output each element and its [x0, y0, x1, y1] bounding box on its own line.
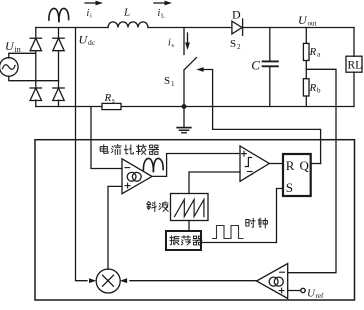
svg-text:U: U — [5, 39, 15, 53]
diode S2 — [232, 21, 242, 34]
label 时钟 — [246, 218, 255, 227]
Q output wire — [311, 163, 321, 165]
svg-text:1: 1 — [171, 80, 175, 88]
wire source bottom to bridge right midpoint — [9, 76, 59, 80]
label 斜波 — [147, 202, 156, 212]
ramp generator box — [171, 194, 209, 221]
wire source top to bridge left midpoint — [9, 53, 36, 57]
diode bridge D2 (upper-right) — [53, 37, 64, 39]
U_dc sense wire to multiplier — [76, 28, 88, 281]
diode bridge D3 (lower-left) — [30, 87, 41, 89]
multiplier — [96, 269, 120, 293]
current-transformer coupling symbol (top) — [49, 8, 59, 21]
ground — [183, 107, 185, 128]
arrow i_L — [154, 2, 167, 4]
svg-text:a: a — [317, 51, 321, 59]
EA minus — [280, 271, 285, 273]
svg-text:in: in — [15, 45, 21, 54]
svg-text:dc: dc — [88, 38, 96, 47]
U1 plus — [125, 183, 130, 188]
bottom rail — [36, 106, 354, 108]
svg-text:out: out — [308, 20, 317, 28]
svg-text:RL: RL — [348, 60, 363, 72]
svg-text:ref: ref — [316, 292, 324, 300]
svg-text:R: R — [309, 82, 317, 94]
oscillator output to S input — [201, 189, 283, 243]
EA plus — [279, 288, 284, 293]
svg-text:U: U — [298, 13, 308, 27]
arrow i_s — [187, 33, 189, 45]
clock pulse waveform — [213, 226, 244, 239]
U1 minus — [125, 167, 130, 169]
arrow i_i — [85, 2, 98, 4]
control block outline — [35, 140, 355, 300]
sawtooth waveform — [175, 200, 204, 217]
U1 output to comparator U2 — [152, 154, 240, 177]
top rail — [36, 27, 108, 29]
svg-text:2: 2 — [237, 43, 241, 51]
svg-text:Q: Q — [300, 158, 310, 173]
hysteresis circles inside U1 — [127, 172, 136, 181]
svg-text:U: U — [79, 33, 89, 47]
error amplifier triangle — [257, 264, 288, 299]
step symbol inside U2 — [245, 158, 251, 167]
svg-text:s: s — [172, 42, 175, 49]
ramp-oscillator link — [188, 221, 190, 232]
svg-text:R: R — [309, 46, 317, 58]
CT coupling symbol (comparator) — [143, 158, 153, 171]
error amp output into multiplier — [130, 280, 257, 282]
resistor Rb — [303, 79, 309, 96]
U2 output to R input — [269, 163, 283, 165]
switch S1 blade — [184, 58, 197, 71]
current comparator U1 triangle — [122, 159, 152, 194]
svg-text:R: R — [104, 92, 112, 104]
ramp wire to U2 minus — [189, 172, 240, 194]
svg-text:S: S — [164, 75, 170, 87]
resistor Ra branch — [305, 28, 307, 44]
bridge right leg wires — [58, 28, 60, 39]
junction node (switch/ground) — [182, 104, 187, 109]
svg-text:s: s — [112, 97, 115, 105]
AC source Uin — [0, 58, 18, 77]
oscillator box 振荡器 — [166, 231, 201, 250]
load RL branch — [353, 28, 355, 57]
EA plus input with Uref terminal — [288, 290, 301, 292]
RS flip-flop box — [283, 154, 311, 196]
diode bridge D4 (lower-right) — [53, 87, 64, 89]
label 电流比较器 — [100, 145, 108, 153]
svg-text:C: C — [251, 57, 260, 72]
svg-text:b: b — [317, 87, 321, 95]
svg-text:S: S — [286, 180, 293, 195]
bridge left leg wires — [35, 28, 37, 39]
multiplier output to U1 plus input — [108, 186, 122, 269]
svg-text:L: L — [161, 13, 165, 20]
U2 minus — [247, 171, 252, 173]
svg-text:i: i — [90, 13, 92, 20]
diode bridge D1 (upper-left) — [30, 37, 41, 39]
capacitor C branch — [269, 28, 271, 61]
Rs sense wire to current comparator — [91, 107, 122, 169]
switch control arrow from Q — [196, 67, 203, 72]
svg-text:R: R — [286, 158, 295, 173]
U2 plus — [242, 151, 247, 156]
PWM comparator U2 triangle — [240, 146, 269, 181]
svg-text:S: S — [230, 38, 236, 50]
inductor L — [108, 22, 148, 28]
svg-text:L: L — [123, 7, 130, 19]
svg-text:D: D — [232, 8, 241, 22]
feedback tap from Ra/Rb divider — [288, 69, 336, 272]
switch S1 branch — [183, 28, 185, 55]
sense resistor Rs — [102, 103, 121, 109]
